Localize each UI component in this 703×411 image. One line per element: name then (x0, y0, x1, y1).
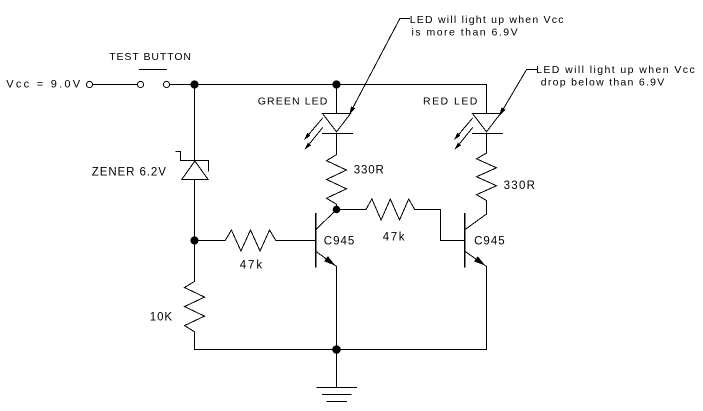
svg-text:10K: 10K (150, 312, 173, 324)
terminal circle (Vcc) (86, 81, 92, 87)
annotation leader arrow to LED1 (349, 19, 410, 115)
wire switch to node J1 (170, 84, 195, 86)
annotation text: LED will light up when Vcc drop below than 6.9V (536, 64, 695, 89)
wire R5 to bottom rail (195, 332, 337, 350)
wire top rail J2 to red branch corner (337, 85, 487, 114)
svg-text:drop below than 6.9V: drop below than 6.9V (541, 77, 665, 89)
svg-text:LED will light up when Vcc: LED will light up when Vcc (410, 14, 564, 26)
junction J4 (Q1 collector node) (333, 206, 341, 214)
LED D2 GREEN LED (323, 114, 353, 134)
wire zener anode to J3 (194, 180, 196, 241)
resistor R1 47k (225, 230, 276, 251)
LED2 emission arrow upper (454, 118, 472, 140)
junction J5 (ground node) (332, 345, 341, 354)
svg-text:RED LED: RED LED (423, 96, 478, 108)
svg-text:LED will light up when Vcc: LED will light up when Vcc (536, 64, 695, 76)
switch S1 TEST BUTTON contact right (163, 81, 169, 87)
wire J4 to R2 (337, 209, 366, 211)
wire J1 down to zener cathode (194, 85, 196, 161)
svg-text:C945: C945 (474, 236, 505, 248)
junction J3 (190, 236, 198, 244)
svg-text:47k: 47k (240, 259, 263, 271)
wire Q1 emitter to J5 (336, 267, 338, 350)
svg-text:GREEN LED: GREEN LED (258, 96, 328, 108)
ground symbol (317, 388, 357, 402)
wire J3 down to R5 (194, 241, 196, 282)
LED2 emission arrow lower (455, 128, 473, 150)
junction J1 (190, 80, 198, 88)
resistor R2 47k (366, 199, 415, 220)
wire Q2 emitter to bottom rail (337, 267, 487, 350)
wire R1 to Q1 base (276, 240, 316, 242)
wire LED2 to R4 (486, 134, 488, 154)
junction J2 (green LED branch) (332, 80, 340, 88)
wire top rail J1 to J2 (195, 84, 337, 86)
transistor Q1 C945 (316, 210, 337, 267)
wire R4 to Q2 collector (486, 201, 488, 215)
wire LED1 to R3 (336, 134, 338, 155)
svg-text:330R: 330R (354, 164, 384, 176)
wire J2 down to LED1 (336, 85, 338, 114)
zener diode D1 6.2V (176, 152, 209, 180)
annotation leader arrow to LED2 (499, 70, 536, 116)
svg-text:C945: C945 (324, 236, 355, 248)
wire R2 to Q2 base (415, 210, 465, 241)
LED D3 RED LED (473, 114, 503, 134)
svg-text:47k: 47k (383, 232, 405, 244)
svg-text:330R: 330R (504, 180, 536, 192)
transistor Q2 C945 (465, 214, 487, 267)
resistor R4 330R (477, 153, 497, 201)
switch S1 TEST BUTTON contact left (137, 81, 143, 87)
svg-text:Vcc = 9.0V: Vcc = 9.0V (6, 78, 80, 90)
wire R3 to junction J4 (336, 204, 338, 209)
annotation text: LED will light up when Vcc is more than 6.9V (410, 14, 564, 39)
LED1 emission arrow lower (305, 128, 323, 150)
wire J3 to R1 (195, 240, 226, 242)
svg-text:TEST BUTTON: TEST BUTTON (109, 51, 191, 63)
wire Vcc terminal to switch (93, 84, 138, 86)
LED1 emission arrow upper (304, 118, 322, 140)
svg-text:is more than 6.9V: is more than 6.9V (412, 27, 518, 39)
switch S1 button actuator bar (140, 69, 167, 71)
wire J5 to ground (336, 350, 338, 388)
resistor R5 10K (185, 281, 205, 331)
resistor R3 330R (327, 155, 347, 205)
svg-text:ZENER 6.2V: ZENER 6.2V (92, 166, 166, 178)
